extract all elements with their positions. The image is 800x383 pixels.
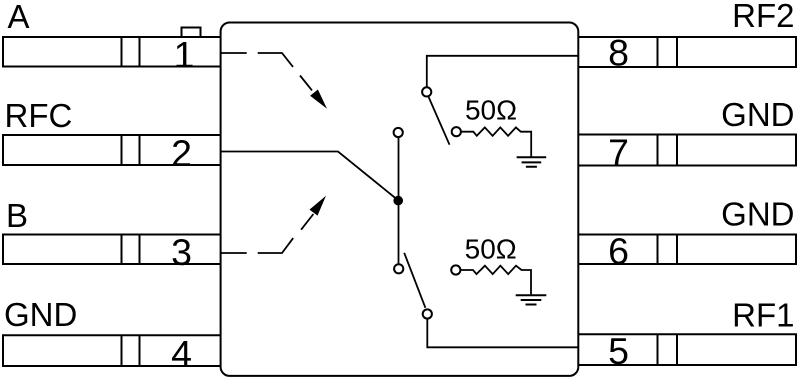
wire RF2 from pin 8 to top contact xyxy=(427,56,579,87)
pin 3 number xyxy=(171,231,192,273)
node label GND pin4 xyxy=(4,296,77,333)
control arrow from pin 3 (net B), dashed xyxy=(221,214,313,253)
node label GND pin7 xyxy=(721,96,794,133)
svg-text:4: 4 xyxy=(171,333,192,375)
pin 5 number xyxy=(608,330,629,372)
pin 8 pad xyxy=(579,37,797,67)
switch arm SW2 (RF1 side, open) xyxy=(404,253,425,308)
contact circle: RF2 throw xyxy=(422,87,431,96)
node label RF1 xyxy=(732,297,794,334)
ground symbol (R2) xyxy=(516,295,547,304)
node label RF2 xyxy=(732,0,794,34)
pin 1 indicator tab xyxy=(182,28,201,38)
svg-text:RF2: RF2 xyxy=(732,0,794,34)
svg-text:GND: GND xyxy=(4,296,77,333)
resistor R2 50 ohm zigzag xyxy=(461,266,531,295)
svg-text:3: 3 xyxy=(171,231,192,273)
pin 6 pad xyxy=(579,235,797,265)
wire RF1 throw to pin 5 xyxy=(427,319,578,348)
svg-text:2: 2 xyxy=(171,132,192,174)
svg-text:RF1: RF1 xyxy=(732,297,794,334)
node label RFC xyxy=(5,97,73,134)
pin 4 pad xyxy=(3,335,221,366)
node: pole junction dot xyxy=(393,196,403,206)
control arrow from pin 1 (net A), dashed xyxy=(221,53,312,90)
value label 50 ohm (R1) xyxy=(465,95,517,126)
pin 1 number xyxy=(174,34,195,76)
svg-text:5: 5 xyxy=(608,330,629,372)
pin 1 pad xyxy=(3,37,221,67)
svg-text:GND: GND xyxy=(721,196,794,233)
svg-text:RFC: RFC xyxy=(5,97,73,134)
pin 2 pad xyxy=(3,135,221,165)
contact circle: pole top xyxy=(394,128,403,137)
wire RFC from pin 2 to pole junction xyxy=(221,152,398,201)
wire common pole vertical xyxy=(398,138,400,264)
terminal circle of resistor R2 xyxy=(451,265,460,274)
svg-text:GND: GND xyxy=(721,96,794,133)
arrowhead of control arrow A xyxy=(310,90,327,109)
svg-text:A: A xyxy=(8,0,30,35)
pin 6 number xyxy=(608,230,629,272)
contact circle: RF1 throw xyxy=(423,309,432,318)
contact circle: pole bottom xyxy=(394,264,403,273)
pin 4 number xyxy=(171,333,192,375)
pin 2 number xyxy=(171,132,192,174)
svg-text:7: 7 xyxy=(608,131,629,173)
node label GND pin6 xyxy=(721,196,794,233)
value label 50 ohm (R2) xyxy=(465,234,517,265)
svg-text:50Ω: 50Ω xyxy=(465,95,517,126)
pin 3 pad xyxy=(3,235,221,265)
IC body U1 xyxy=(221,23,579,376)
svg-text:1: 1 xyxy=(174,34,195,76)
pin 5 pad xyxy=(579,334,797,365)
arrowhead of control arrow B xyxy=(310,196,327,216)
switch arm SW1 (RF2 side, open) xyxy=(429,97,450,145)
svg-text:8: 8 xyxy=(608,32,629,74)
terminal circle of resistor R1 xyxy=(452,127,461,136)
svg-text:50Ω: 50Ω xyxy=(465,234,517,265)
svg-text:B: B xyxy=(6,197,28,234)
ground symbol (R1) xyxy=(517,157,547,166)
pin 8 number xyxy=(608,32,629,74)
resistor R1 50 ohm zigzag xyxy=(461,127,531,157)
pin 7 pad xyxy=(579,135,797,166)
node label B xyxy=(6,197,28,234)
svg-text:6: 6 xyxy=(608,230,629,272)
node label A xyxy=(8,0,30,35)
pin 7 number xyxy=(608,131,629,173)
